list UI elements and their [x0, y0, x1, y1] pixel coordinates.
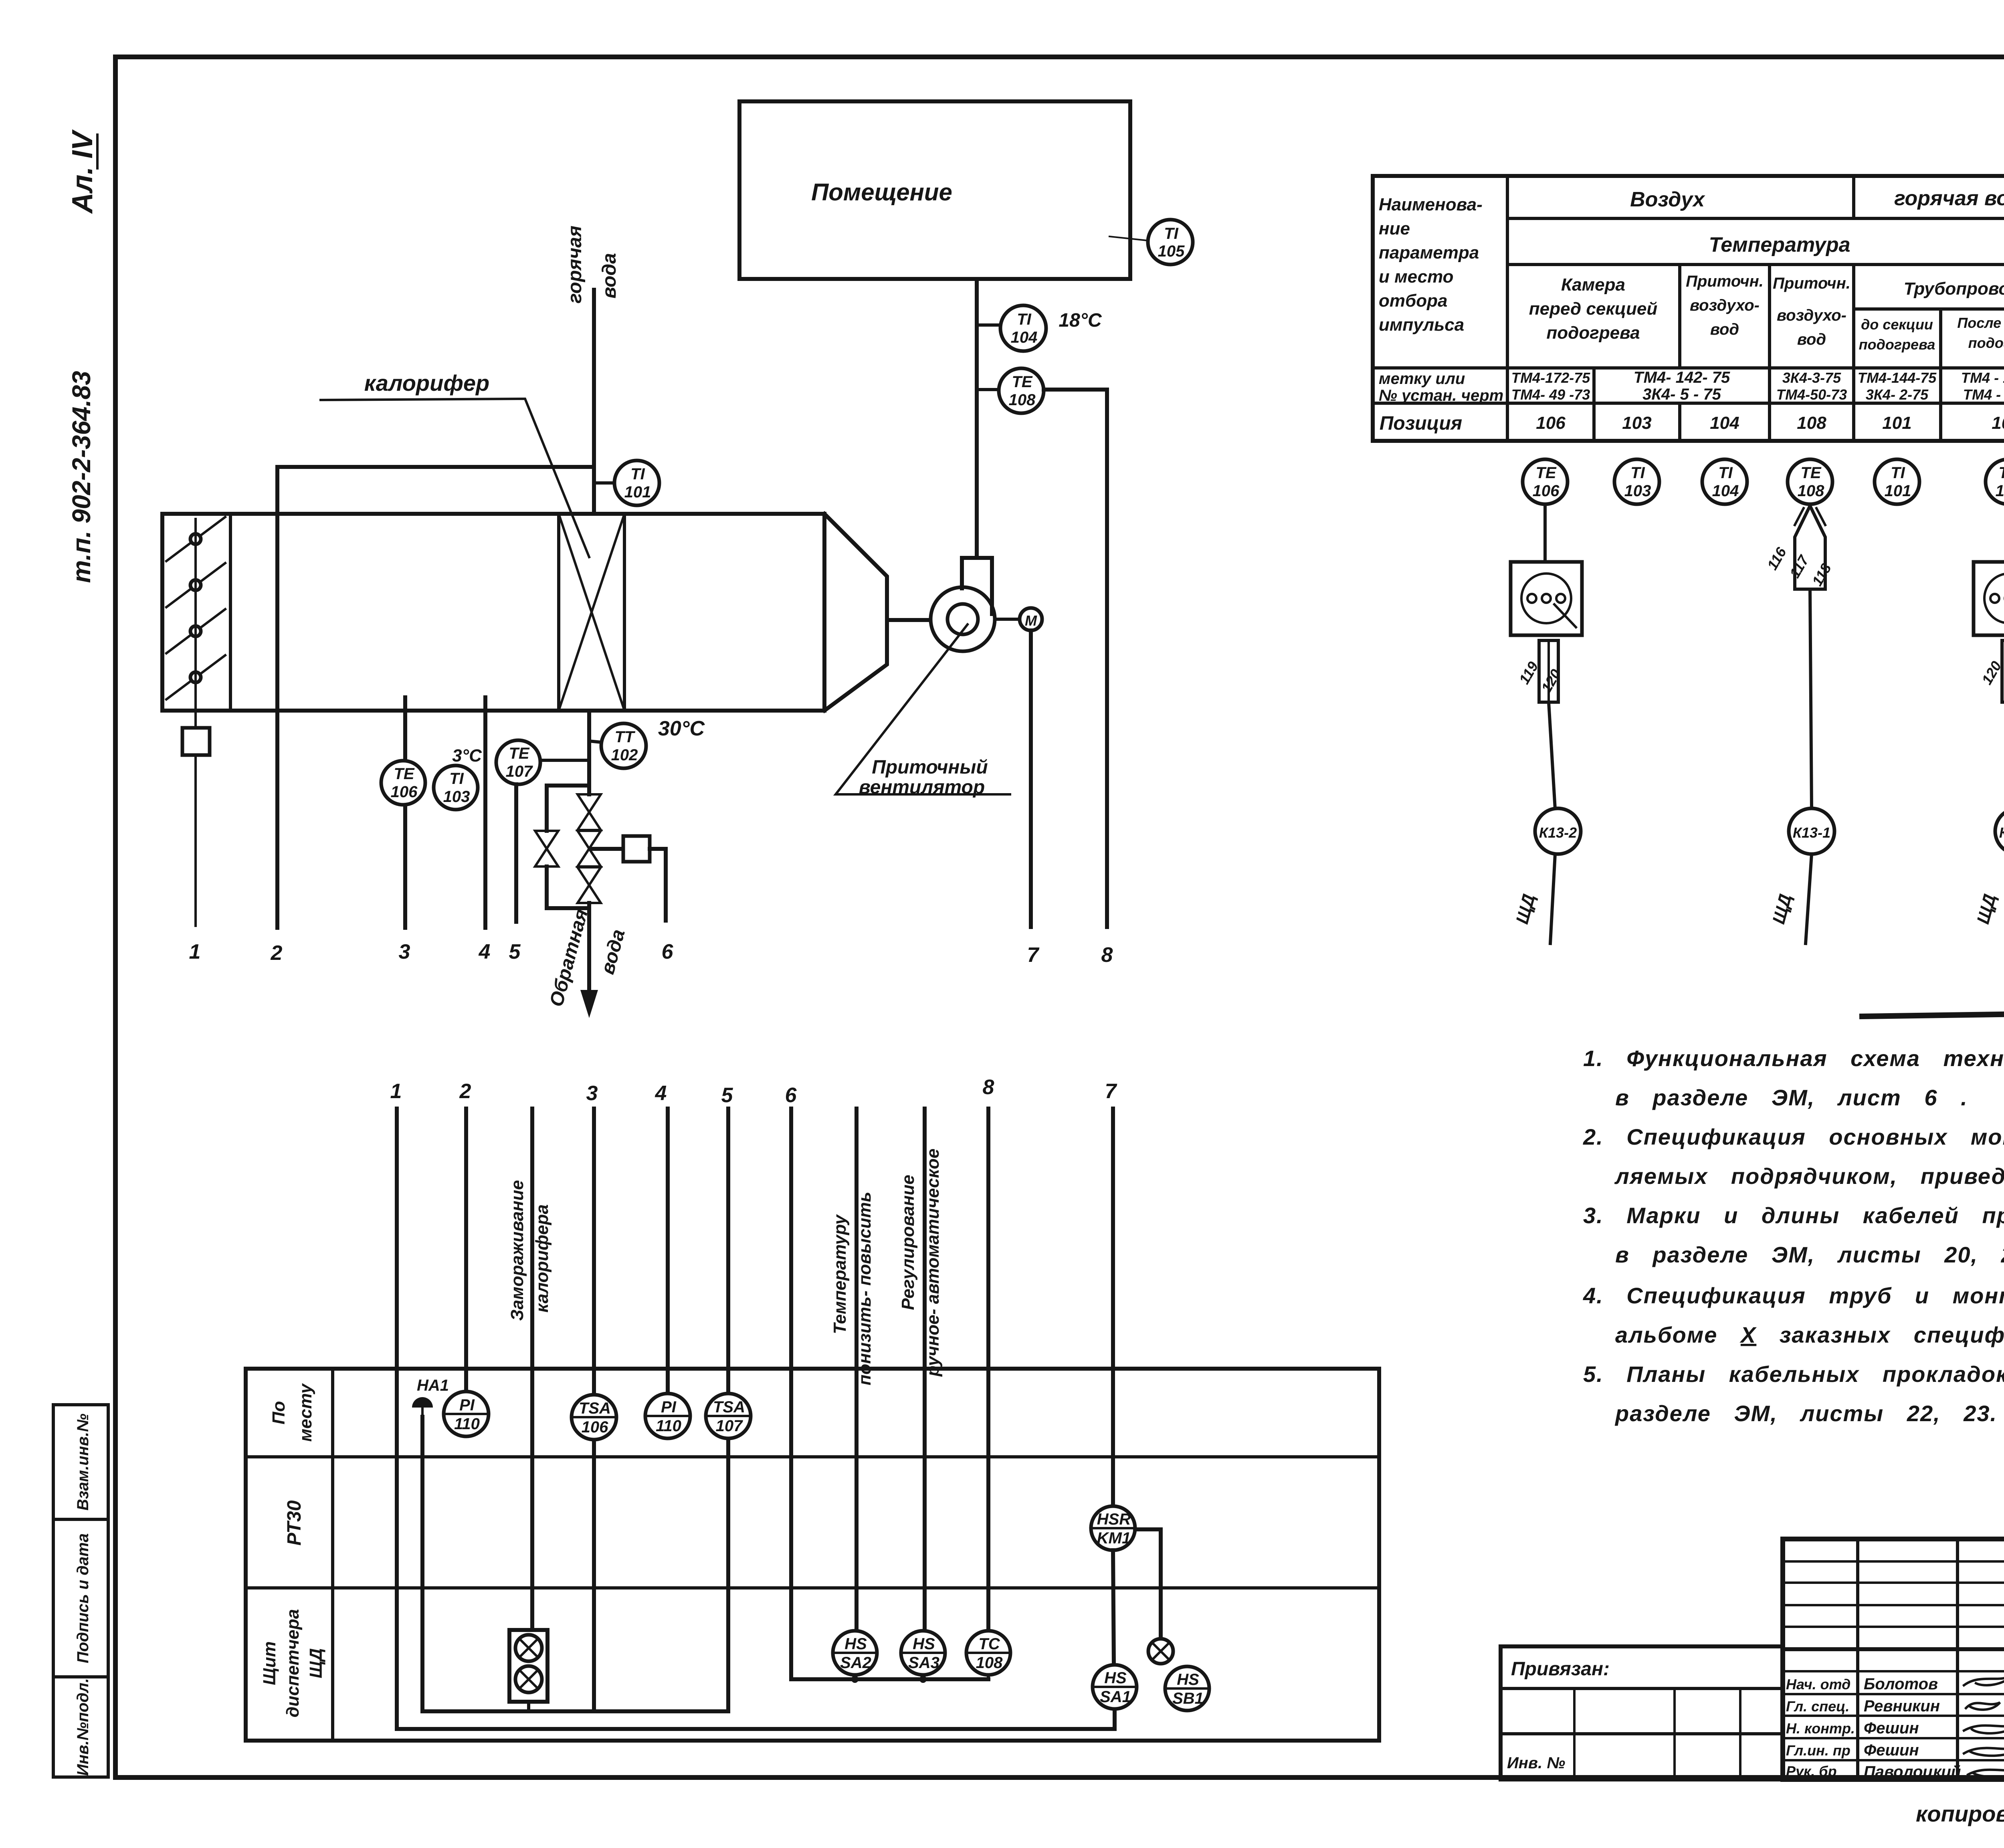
svg-text:К13-1: К13-1	[1793, 824, 1830, 841]
row label Щит диспетчера ЩД	[260, 1641, 279, 1685]
hot water pipe	[592, 290, 596, 514]
cable tag 119/120	[1539, 640, 1558, 702]
svg-text:Регулирование: Регулирование	[898, 1175, 918, 1310]
svg-text:Ал. IV: Ал. IV	[67, 129, 99, 214]
instrument TI103	[434, 765, 478, 810]
valve V2 on main	[578, 831, 601, 866]
svg-text:Нач. отд: Нач. отд	[1786, 1676, 1850, 1692]
svg-text:TI: TI	[449, 770, 464, 788]
svg-text:101: 101	[1882, 413, 1911, 433]
svg-text:SB1: SB1	[1172, 1690, 1204, 1707]
svg-text:подогрева: подогрева	[1859, 336, 1935, 353]
actuator line	[592, 847, 623, 851]
wire HA1 down	[422, 1417, 728, 1711]
wire TE108 to line 8	[1044, 390, 1107, 927]
table outer	[1373, 176, 2004, 441]
svg-text:107: 107	[1996, 482, 2004, 500]
socket box TE107	[1974, 562, 2004, 635]
return water pipe	[587, 711, 591, 794]
instrument PI110 second	[645, 1394, 690, 1438]
svg-text:т.п. 902-2-364.83: т.п. 902-2-364.83	[67, 371, 96, 583]
svg-text:107: 107	[506, 763, 533, 780]
row label По месту	[269, 1401, 289, 1425]
svg-text:до секции: до секции	[1861, 316, 1933, 333]
louver section divider	[229, 514, 232, 711]
svg-text:HA1: HA1	[417, 1377, 449, 1394]
svg-text:Щит: Щит	[260, 1641, 279, 1685]
svg-text:101: 101	[624, 483, 651, 501]
svg-text:TSA: TSA	[579, 1400, 611, 1417]
bypass valve	[535, 831, 558, 866]
svg-text:106: 106	[582, 1418, 608, 1436]
instrument TI103 bubble	[1614, 459, 1659, 504]
svg-text:KM1: KM1	[1097, 1529, 1131, 1547]
svg-text:SA3: SA3	[908, 1654, 939, 1672]
instrument TE108 bubble	[1788, 459, 1832, 504]
svg-text:Н. контр.: Н. контр.	[1786, 1720, 1855, 1737]
svg-text:Паволоцкий: Паволоцкий	[1864, 1763, 1961, 1781]
svg-text:102: 102	[611, 746, 638, 764]
svg-text:калорифер: калорифер	[364, 370, 490, 396]
air handler unit body	[162, 514, 824, 711]
svg-text:3°C: 3°C	[452, 746, 482, 765]
margin stamp strip bottom left	[53, 1405, 108, 1777]
svg-text:30°C: 30°C	[658, 717, 705, 740]
svg-text:ТМ4-144-75: ТМ4-144-75	[1858, 370, 1937, 386]
svg-text:Воздух: Воздух	[1630, 188, 1705, 211]
svg-text:ТМ4 - 79 - 73: ТМ4 - 79 - 73	[1963, 386, 2004, 403]
svg-text:ляемых подрядчиком, приведе: ляемых подрядчиком, приведены в разделе …	[1614, 1163, 2004, 1189]
return pipe outlet with arrow	[587, 903, 591, 1002]
instrument TE106 bubble	[1523, 459, 1568, 504]
svg-text:1. Функциональная схема техн: 1. Функциональная схема технологического…	[1583, 1046, 2004, 1071]
svg-text:и место: и место	[1379, 267, 1454, 287]
svg-text:8: 8	[1101, 943, 1113, 967]
svg-text:Взам.инв.№: Взам.инв.№	[74, 1414, 92, 1511]
marshalling circle K13-2	[1535, 808, 1581, 854]
svg-text:TE: TE	[1012, 373, 1032, 391]
instrument TSA106	[572, 1395, 616, 1440]
svg-text:PI: PI	[459, 1396, 475, 1414]
svg-text:HS: HS	[1104, 1669, 1127, 1687]
svg-text:M: M	[1025, 612, 1037, 629]
svg-text:SA1: SA1	[1100, 1688, 1131, 1706]
button HS SB1	[1165, 1666, 1209, 1711]
actuator box	[623, 836, 650, 862]
svg-text:Помещение: Помещение	[811, 179, 952, 206]
duct to fan	[887, 618, 931, 622]
lamp box	[509, 1630, 547, 1702]
bypass top	[547, 786, 589, 794]
svg-text:3К4- 5 - 75: 3К4- 5 - 75	[1642, 386, 1721, 403]
heater cross X	[559, 514, 624, 711]
signatures	[1964, 1675, 2004, 1685]
svg-text:К13-3: К13-3	[1999, 824, 2004, 841]
svg-text:3: 3	[399, 940, 410, 963]
wire regulation manual/auto	[923, 1109, 927, 1631]
wire line 3	[403, 697, 407, 928]
instrument TI101 bubble	[1875, 459, 1919, 504]
svg-text:110: 110	[454, 1415, 480, 1433]
svg-text:TE: TE	[509, 745, 529, 762]
socket box TE106	[1511, 562, 1582, 635]
svg-text:Подпись и дата: Подпись и дата	[74, 1533, 92, 1663]
wire room to fan	[975, 279, 979, 558]
svg-text:HSR: HSR	[1097, 1511, 1131, 1528]
junction box line 1	[182, 728, 210, 755]
svg-text:108: 108	[1009, 391, 1036, 409]
stub to TI104	[977, 323, 1000, 327]
heater section left wall	[557, 514, 560, 711]
svg-text:TI: TI	[1718, 464, 1733, 482]
svg-text:2: 2	[459, 1080, 471, 1103]
svg-text:1: 1	[189, 940, 201, 963]
svg-text:106: 106	[1533, 482, 1560, 500]
wire TE107 to return pipe	[540, 759, 589, 762]
svg-text:Фешин: Фешин	[1864, 1719, 1919, 1737]
svg-text:4. Спецификация труб и монта: 4. Спецификация труб и монтажных материа…	[1583, 1283, 2004, 1308]
svg-text:HS: HS	[844, 1635, 867, 1653]
horizontals left part	[1783, 1560, 2004, 1563]
wire K13-2 to ЩД	[1550, 854, 1555, 943]
lamp HL	[1148, 1639, 1173, 1664]
svg-text:3К4- 2-75: 3К4- 2-75	[1866, 386, 1929, 403]
svg-text:вентилятор: вентилятор	[859, 777, 985, 798]
Привязан block	[1501, 1646, 1783, 1779]
svg-text:ручное- автоматическое: ручное- автоматическое	[923, 1149, 943, 1377]
row label РТ30	[284, 1500, 305, 1545]
wire line 7 from motor	[1029, 630, 1033, 927]
outlet cone	[824, 514, 887, 711]
louver slat 1	[166, 517, 225, 561]
svg-text:105: 105	[1158, 242, 1185, 260]
relay HSR KM1	[1091, 1506, 1135, 1550]
svg-text:104: 104	[1710, 413, 1739, 433]
louver slat 4	[166, 655, 225, 699]
svg-text:Приточн.: Приточн.	[1773, 275, 1850, 292]
svg-text:в разделе ЭМ, лист 6 .: в разделе ЭМ, лист 6 .	[1615, 1085, 1968, 1110]
label горячая вода	[564, 226, 586, 303]
svg-text:подогрева: подогрева	[1968, 335, 2004, 351]
instrument TE107 bubble	[1986, 459, 2004, 504]
louver slat 2	[166, 563, 225, 607]
svg-text:ЩД: ЩД	[306, 1648, 326, 1678]
fan leader line	[836, 624, 1010, 794]
svg-text:горячая вода: горячая вода	[1894, 187, 2004, 210]
svg-text:подогрева: подогрева	[1546, 323, 1640, 343]
room box Помещение	[739, 101, 1130, 279]
svg-text:TE: TE	[1800, 464, 1821, 482]
controller TC108	[966, 1631, 1010, 1675]
wire K13-1 to ЩД	[1806, 854, 1812, 943]
svg-text:Фешин: Фешин	[1864, 1741, 1919, 1759]
instrument TT102	[601, 723, 646, 768]
stub to TI101	[594, 481, 614, 485]
svg-text:2. Спецификация основных монт: 2. Спецификация основных монтажных матер…	[1583, 1124, 2004, 1149]
svg-text:Температуру: Температуру	[830, 1214, 850, 1334]
svg-text:4: 4	[655, 1082, 667, 1105]
svg-text:TT: TT	[615, 728, 636, 746]
svg-text:Позиция: Позиция	[1380, 413, 1462, 434]
svg-text:5. Планы кабельных прок: 5. Планы кабельных прокладок приведены в	[1583, 1361, 2004, 1387]
stub to TE108	[977, 388, 999, 391]
svg-text:Инв. №: Инв. №	[1507, 1754, 1565, 1772]
svg-text:Инв.№подл.: Инв.№подл.	[74, 1678, 92, 1776]
svg-text:HS: HS	[913, 1635, 935, 1653]
wire TE106 to socket	[1543, 504, 1547, 562]
svg-text:ТМ4- 142- 75: ТМ4- 142- 75	[1634, 369, 1730, 386]
svg-text:18°C: 18°C	[1059, 310, 1102, 331]
instrument TI105	[1148, 220, 1193, 265]
svg-text:5: 5	[509, 940, 521, 963]
svg-text:импульса: импульса	[1379, 315, 1464, 335]
svg-text:в разделе ЭМ, листы 20,: в разделе ЭМ, листы 20, 21.	[1615, 1242, 2004, 1267]
svg-text:альбоме Х заказных специфи: альбоме Х заказных спецификаций АМ-С1 .	[1615, 1322, 2004, 1347]
svg-text:TI: TI	[1164, 225, 1178, 242]
verticals left part	[1856, 1539, 1859, 1779]
svg-text:вод: вод	[1797, 331, 1826, 348]
switch HS SA1	[1093, 1665, 1137, 1709]
svg-text:103: 103	[443, 788, 470, 806]
label Обратная вода	[546, 907, 592, 1009]
svg-text:Камера: Камера	[1561, 275, 1625, 295]
instrument TI101	[614, 460, 659, 505]
svg-text:воздухо-: воздухо-	[1777, 307, 1846, 324]
svg-text:6: 6	[662, 940, 674, 963]
instrument TSA107	[706, 1394, 751, 1438]
svg-text:Ревникин: Ревникин	[1864, 1697, 1940, 1715]
svg-text:ние: ние	[1379, 219, 1410, 238]
svg-text:По: По	[269, 1401, 289, 1425]
svg-text:TI: TI	[1891, 464, 1905, 482]
svg-text:РТ30: РТ30	[284, 1500, 305, 1545]
svg-text:Наименова-: Наименова-	[1379, 195, 1483, 214]
matrix table	[246, 1369, 1379, 1741]
margin label Ал.IV	[67, 129, 99, 214]
svg-text:Гл. спец.: Гл. спец.	[1786, 1698, 1849, 1715]
svg-text:калорифера: калорифера	[532, 1204, 552, 1313]
wire thermowell to K13-1	[1810, 589, 1812, 809]
svg-text:1: 1	[390, 1080, 402, 1103]
wire temp raise/lower	[855, 1109, 859, 1631]
instrument TI104 bubble	[1702, 459, 1747, 504]
svg-text:TSA: TSA	[713, 1398, 745, 1416]
svg-text:отбора: отбора	[1379, 291, 1447, 311]
svg-text:TE: TE	[1998, 464, 2004, 482]
wire line 2	[275, 467, 279, 928]
wire freeze lamp line	[530, 1109, 534, 1630]
svg-text:8: 8	[983, 1076, 994, 1099]
bypass bottom	[547, 906, 589, 910]
svg-text:разделе ЭМ, листы 22: разделе ЭМ, листы 22, 23.	[1614, 1401, 1997, 1426]
svg-text:108: 108	[976, 1654, 1003, 1672]
wire KM1 to lamp	[1135, 1529, 1161, 1639]
table verticals	[1506, 176, 1509, 441]
svg-text:107: 107	[1992, 413, 2004, 433]
valve V1 on main	[578, 794, 601, 830]
svg-text:3: 3	[586, 1082, 598, 1105]
svg-text:TI: TI	[1630, 464, 1645, 482]
svg-text:106: 106	[391, 783, 418, 801]
svg-text:TI: TI	[630, 465, 645, 483]
svg-text:вод: вод	[1710, 321, 1739, 338]
svg-text:7: 7	[1105, 1080, 1117, 1103]
instrument TE108	[999, 368, 1044, 413]
heater section right wall	[623, 514, 626, 711]
svg-text:104: 104	[1011, 329, 1038, 346]
svg-text:Трубопровод: Трубопровод	[1904, 279, 2004, 299]
instrument TE107	[496, 740, 540, 784]
svg-text:TE: TE	[394, 765, 414, 783]
svg-text:Приточный: Приточный	[872, 757, 988, 778]
marshalling circle K13-1	[1789, 808, 1834, 854]
svg-text:101: 101	[1885, 482, 1911, 500]
wire line2 riser top	[277, 465, 594, 469]
svg-text:103: 103	[1622, 413, 1651, 433]
svg-text:ТМ4 - 170 -75: ТМ4 - 170 -75	[1961, 370, 2004, 386]
svg-text:PI: PI	[661, 1398, 677, 1416]
svg-text:вода: вода	[599, 253, 620, 298]
svg-text:Болотов: Болотов	[1864, 1675, 1938, 1693]
louver slat 3	[166, 609, 225, 653]
svg-text:воздухо-: воздухо-	[1690, 297, 1760, 314]
supply fan volute	[931, 587, 995, 651]
svg-text:2: 2	[271, 941, 283, 965]
svg-text:108: 108	[1797, 413, 1826, 433]
instrument TI104	[1000, 305, 1046, 351]
svg-text:4: 4	[479, 940, 491, 963]
label Замораживание калорифера	[507, 1180, 527, 1321]
marshalling circle K13-3	[1995, 808, 2004, 854]
svg-text:ТМ4-172-75: ТМ4-172-75	[1511, 370, 1591, 386]
svg-text:HS: HS	[1177, 1671, 1199, 1688]
svg-text:Гл.ин. пр: Гл.ин. пр	[1786, 1742, 1850, 1759]
svg-text:перед секцией: перед секцией	[1529, 299, 1658, 319]
svg-text:TC: TC	[978, 1635, 1000, 1653]
svg-text:3. Марки и длины кабелей: 3. Марки и длины кабелей приведены в каб…	[1583, 1203, 2004, 1228]
svg-text:TE: TE	[1535, 464, 1556, 482]
instrument PI110 local	[444, 1392, 489, 1436]
margin label т.п.902-2-364.83	[67, 371, 96, 583]
margin cell Подпись и дата	[74, 1533, 92, 1663]
svg-text:103: 103	[1624, 482, 1651, 500]
svg-text:метку или: метку или	[1379, 370, 1465, 388]
switch HS SA3	[901, 1631, 945, 1675]
svg-text:ТМ4- 49 -73: ТМ4- 49 -73	[1511, 386, 1590, 403]
svg-text:5: 5	[721, 1084, 733, 1107]
svg-text:3К4-3-75: 3К4-3-75	[1782, 370, 1841, 386]
svg-text:Рук. бр: Рук. бр	[1786, 1763, 1837, 1779]
wire line 6	[650, 849, 666, 921]
svg-text:месту: месту	[296, 1383, 315, 1442]
svg-text:Приточн.: Приточн.	[1686, 273, 1764, 290]
svg-text:диспетчера: диспетчера	[283, 1609, 303, 1718]
leader to TI105	[1109, 236, 1147, 240]
svg-text:104: 104	[1712, 482, 1739, 500]
bypass pipe	[545, 794, 549, 831]
wire tag to K13-2	[1549, 702, 1555, 809]
wire line 5	[514, 784, 518, 922]
margin cell Взам.инв.№	[74, 1414, 92, 1511]
svg-text:Привязан:: Привязан:	[1511, 1658, 1610, 1680]
thermowell TE108	[1795, 506, 1825, 589]
switch HS SA2	[833, 1631, 877, 1675]
svg-text:107: 107	[716, 1417, 743, 1435]
stub to TT102	[589, 741, 601, 742]
margin cell Инв.№подл.	[74, 1678, 92, 1776]
cable tag 120/121	[2002, 640, 2004, 702]
instrument TE106	[381, 761, 425, 805]
svg-text:TI: TI	[1017, 311, 1031, 328]
svg-text:110: 110	[656, 1417, 681, 1435]
wire line 1 through louver	[194, 519, 197, 728]
svg-text:106: 106	[1536, 413, 1566, 433]
svg-text:понизить- повысить: понизить- повысить	[855, 1192, 875, 1385]
table horizontals	[1507, 217, 2004, 220]
svg-text:7: 7	[1027, 943, 1040, 967]
svg-text:горячая: горячая	[564, 226, 586, 303]
wire line 4	[483, 697, 487, 928]
svg-text:К13-2: К13-2	[1539, 824, 1577, 841]
motor M	[995, 618, 1020, 621]
svg-text:№ устан. черт: № устан. черт	[1379, 387, 1503, 404]
svg-text:После секции: После секции	[1957, 315, 2004, 331]
valve V3 on main	[578, 867, 601, 903]
svg-text:SA2: SA2	[840, 1654, 871, 1672]
svg-text:параметра: параметра	[1379, 243, 1479, 263]
svg-text:копировал:: копировал:	[1916, 1801, 2004, 1826]
svg-text:ТМ4-50-73: ТМ4-50-73	[1776, 386, 1847, 403]
wire KM1 to SA1	[1113, 1550, 1114, 1665]
svg-text:108: 108	[1798, 482, 1824, 500]
svg-text:Температура: Температура	[1709, 233, 1850, 256]
svg-text:6: 6	[785, 1084, 797, 1107]
separator bar	[1862, 1011, 2004, 1016]
svg-text:Замораживание: Замораживание	[507, 1180, 527, 1321]
